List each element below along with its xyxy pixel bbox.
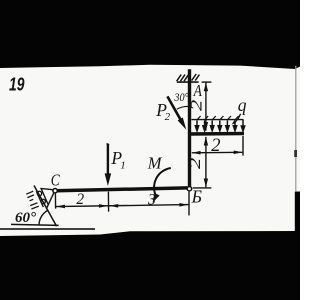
svg-text:1: 1 [120, 159, 126, 171]
bottom black film band [0, 231, 300, 300]
svg-text:q: q [238, 95, 247, 115]
cantilever beam with load q [190, 132, 244, 136]
60deg angle arc [39, 211, 48, 226]
extension tick below P1 [107, 192, 109, 212]
svg-text:Б: Б [191, 187, 202, 207]
support rod pin lower [41, 199, 45, 203]
svg-text:С: С [51, 172, 61, 189]
dark nick on page edge [294, 150, 297, 157]
faint page edge line right [295, 66, 296, 192]
member AB (vertical bar) [188, 69, 191, 187]
svg-text:30°: 30° [173, 92, 189, 105]
svg-text:3: 3 [147, 192, 156, 209]
bottom dimension line C to B [55, 205, 189, 207]
support link top line at C [40, 188, 53, 189]
vertical dimension line upper segment [205, 83, 207, 131]
force P2 arrow [167, 96, 181, 120]
svg-text:А: А [193, 83, 203, 100]
svg-text:19: 19 [9, 75, 25, 95]
node circle C [53, 189, 57, 193]
right black film strip [295, 192, 300, 300]
svg-text:2: 2 [165, 111, 171, 123]
support rod side 1 [41, 189, 48, 205]
top black film band [0, 0, 300, 69]
dimension extension line right of q beam [242, 136, 244, 156]
distributed load q top line [192, 119, 244, 121]
dimension extension line at A [202, 81, 212, 83]
extension tick below B [188, 192, 190, 216]
moment arc [154, 168, 171, 197]
distributed load arrows [195, 120, 244, 131]
load hatch ticks above top line [198, 116, 239, 119]
svg-text:M: M [147, 154, 163, 173]
extension tick below C [54, 193, 56, 208]
support rod side 2 [36, 191, 43, 207]
svg-text:2: 2 [187, 157, 204, 169]
vertical dimension line lower segment [205, 137, 207, 187]
svg-text:2: 2 [76, 191, 84, 208]
inclined ground line of support [34, 186, 57, 227]
svg-text:60°: 60° [15, 210, 36, 226]
support rod pin upper [37, 191, 41, 195]
svg-text:2: 2 [211, 136, 220, 156]
horizontal dimension line under q beam [192, 151, 243, 154]
dimension extension line at B right [193, 187, 212, 189]
30deg angle arc [177, 106, 189, 109]
ground base line [11, 224, 59, 225]
moment arrowhead [153, 193, 160, 203]
q leader line [233, 114, 240, 124]
svg-text:2: 2 [189, 99, 206, 111]
hatching at support C [26, 191, 39, 209]
hatching at support A [177, 74, 200, 81]
support wall line at A [177, 81, 199, 83]
beam C-B (horizontal bar) [56, 188, 187, 191]
node circle B [187, 187, 191, 191]
support link diagonal from C pin [46, 193, 54, 209]
force P1 arrow [107, 144, 110, 145]
thin rule above bottom band [0, 228, 95, 230]
